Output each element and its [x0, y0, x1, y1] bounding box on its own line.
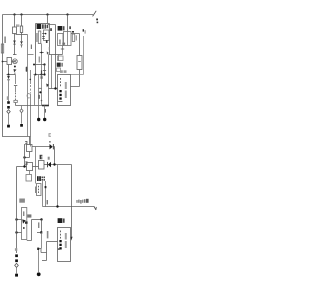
wire lead into box1 [29, 137, 31, 145]
resistor R1 body on left rail [1, 44, 3, 53]
IC U1 label above [60, 70, 67, 73]
label j near x49 [49, 47, 50, 50]
wire ground row dark segment [42, 105, 49, 107]
junction dot (41.5,100.5) [41, 100, 43, 102]
resistor R5 small body right of DL2 [72, 34, 74, 42]
junction blob (41.5,219.5) [40, 218, 42, 220]
junction dot bus x14.5 [13, 13, 15, 15]
label rps10 [76, 199, 88, 204]
diode D1 group label [37, 24, 49, 29]
wire x8.5 down [8, 80, 10, 101]
U1 inner dashed electrode [60, 78, 62, 87]
IC D2 box [58, 228, 71, 262]
label z [15, 248, 17, 251]
wire drop x38.5 to pad [38, 106, 40, 119]
small box above U1 [57, 68, 61, 72]
label IS lower left [19, 199, 25, 203]
small box above DL3 [58, 56, 64, 61]
label small y142 [49, 141, 51, 143]
wire bus end arrow tick [93, 11, 97, 17]
junction dot (44.5,74.5) [43, 73, 45, 75]
glyph crescent near x26 [26, 67, 28, 72]
capacitor tick y70.5 [43, 70, 46, 72]
terminal pad dot left [37, 118, 40, 121]
junction dot (54.5,164.5) [53, 163, 55, 165]
wire drop x45.5 [45, 181, 47, 207]
symbol at x15.5 y101 [14, 100, 17, 102]
label E [40, 155, 43, 159]
transistor Q1 box [22, 208, 27, 240]
Q1 inner emitter arrow [22, 219, 26, 223]
wire riser x48.5 [48, 55, 50, 106]
wire box1 to diode row y146.5 [32, 146, 50, 148]
wire DL2 to right resistor chain [71, 34, 80, 56]
lamp symbol at x14.9 [13, 59, 18, 64]
capacitor C1 box [7, 58, 12, 65]
wire left rail down and bottom-left return [3, 15, 31, 137]
wire riser x51.5 [51, 55, 53, 89]
label 2 right of x67.5 [69, 26, 71, 29]
wire x15.5 to gnd row [15, 103, 17, 106]
wire x83.5 drop to U1 top [71, 36, 84, 75]
blob on x45.5 [45, 186, 47, 188]
D2 inner bottom mark [58, 248, 60, 250]
wire dashed section x15.5 [15, 86, 17, 92]
wire ground row y105.5 [16, 105, 49, 107]
wire x14.5 mid [14, 34, 16, 56]
label inside DL2 bottom [62, 43, 65, 45]
resistor R4 side label [36, 33, 38, 42]
wire x71.5 into D2 right side [71, 207, 73, 238]
resistor R4 body inside D1 [38, 31, 41, 44]
polarity dot 1 bottom-left [15, 254, 18, 257]
mark near x46.5 y41 [46, 40, 48, 43]
resistor R2 label [16, 24, 19, 27]
wire riser x35.5 long [35, 147, 37, 184]
wire base row y88.5 [49, 88, 58, 90]
diamond symbol x21.5 [20, 109, 23, 113]
label col x38.5 [38, 222, 39, 228]
label streak x31 [31, 45, 32, 50]
junction dot (35.5,74.5) [35, 74, 37, 76]
junction dot (55.5,88.5) [54, 87, 56, 89]
wire to terminal [16, 267, 18, 273]
wire x8.5 lower [8, 114, 10, 125]
capacitor plate tick y85.5 [14, 85, 17, 87]
junction dot (8.5,74.5) [8, 74, 10, 76]
blob left Q1 row [25, 221, 28, 223]
capacitor tick y49 x62.5 [61, 48, 64, 50]
blob at (41,232.5) [40, 231, 42, 233]
capacitor tick y52.5 [40, 52, 44, 54]
resistor R2 body [13, 27, 17, 34]
wire riser x30.5 [30, 70, 32, 147]
wire drop x42.5 [42, 181, 44, 207]
output arrow tick [94, 207, 96, 210]
wire D1 right edge [49, 24, 51, 55]
wire link y34.5 [16, 34, 28, 36]
label C mid left [49, 133, 51, 137]
wire corner into x16.5 [16, 167, 18, 214]
arrow mark at left of y54.5 [47, 51, 49, 54]
wire x16.5 link [16, 213, 18, 253]
wire base ticks into Q1 [17, 220, 22, 233]
junction dot (24.5,157.5) [23, 156, 25, 158]
wire row y64.5 [34, 64, 45, 66]
wire x41.5 down [41, 220, 43, 233]
wire row y219.5 [32, 219, 42, 221]
junction dot (34,64.5) [33, 64, 35, 66]
polarity dot 1 x8.5 [7, 101, 10, 104]
resistor R3 body [20, 26, 22, 33]
junction dot (40.4,92.3) [39, 91, 41, 93]
wire row y166.5 left [17, 166, 27, 168]
indicator DL3 label [57, 63, 63, 67]
D2 rotated type text [65, 233, 67, 248]
wire riser x27.5 [27, 35, 29, 137]
U1 rotated type text [65, 82, 67, 98]
wire branch x21.5 from bus [21, 15, 23, 27]
diamond symbol x8.5 [7, 110, 10, 114]
wire C1 to base column [12, 61, 15, 63]
wire stub y54.5 from x27.5 [28, 54, 34, 56]
IC U1 box [58, 75, 71, 106]
D1 frame left edge [35, 24, 37, 75]
junction dot bus x47.5 [46, 13, 48, 15]
wire output row y206.5 [43, 206, 95, 208]
label Q1 area small marks [27, 214, 31, 217]
wire box2 bottom lead [29, 171, 31, 175]
wire riser x34.5 [34, 75, 36, 106]
glyph curl near x28 [27, 94, 30, 98]
box2 bottom small box [26, 175, 32, 182]
diode D5 marks on x14.5 [13, 41, 16, 45]
capacitor tick y88.5 x40 [39, 87, 42, 89]
dot inside C2 [45, 33, 47, 35]
wire tick y232.5 [37, 232, 42, 234]
label 3 near x50 [50, 28, 52, 31]
terminal dot bottom-center [37, 272, 41, 276]
wire y54.5 row [49, 54, 63, 56]
indicator DL1 label [58, 26, 65, 31]
wire bus drop x67.5 [67, 15, 69, 32]
wire x15.5 lower chain [15, 75, 17, 85]
wire x14.9 to node row [14, 73, 16, 75]
wire into D2 left y241.5 [47, 241, 58, 243]
label a mid [48, 157, 50, 160]
diode D8 left-pointing [47, 162, 51, 167]
diamond symbol bottom-left [15, 263, 19, 267]
wire x62.5 link [62, 46, 64, 55]
wire tick y157.5 [25, 157, 30, 159]
node bus right tiny label [96, 19, 98, 24]
wire branch x14.5 from bus [14, 15, 16, 28]
indicator DL2 right box [64, 32, 72, 46]
wire riser x31.5 bottom [27, 220, 32, 241]
wire from left rail to C1 box [3, 61, 8, 63]
U1 inner pellet dots [59, 90, 61, 100]
arrow marks left of y88.5 [46, 84, 49, 88]
wire tick y54.5 [13, 54, 17, 56]
wire drop x57.5 [57, 165, 59, 207]
wire x41.5 lower [41, 233, 43, 249]
wire riser x24.5 [24, 144, 26, 167]
D1 frame top edge [36, 23, 50, 25]
junction dot left rail y61.5 [2, 61, 4, 63]
transistor arrow marks x14.5 [14, 69, 17, 72]
junction dot (57.5,206.5) [56, 205, 58, 207]
wire box1 bottom lead [29, 152, 31, 158]
wire x21.5 to terminal [21, 113, 23, 124]
terminal pad dot right [43, 118, 46, 121]
indicator DL1 left box [58, 34, 64, 46]
wire stub x21.5 chain [21, 106, 23, 110]
diode D4 down at x8.5 [7, 76, 10, 80]
DL2 inner electrode [67, 32, 69, 46]
polarity dot 2 x8.5 [7, 106, 10, 109]
wire bus drop x47.5 [47, 15, 49, 24]
Q1 inner label 1 [23, 211, 24, 216]
junction dot bus x67.5 [66, 13, 68, 15]
wire drop x44.5 to pad [44, 106, 46, 119]
resistor R6 body [77, 56, 82, 70]
junction dot (16.5,219.5) [15, 218, 17, 220]
wire x44.5 to node row [44, 65, 46, 75]
junction dot (41.5,74.5) [40, 73, 42, 75]
diode D7 right-pointing [50, 144, 54, 149]
relay K2 box3 [39, 161, 45, 170]
wire riser x41.5 mid [41, 75, 43, 106]
terminal dot x21.5 [20, 124, 23, 127]
wire x21.5 mid [21, 33, 23, 48]
junction dot (41.5,52.5) [41, 52, 43, 54]
junction dot (14.9,66.5) [14, 66, 16, 68]
label mark x72 y31 [72, 31, 74, 33]
glyphs near x39.5 y96 [38, 95, 39, 99]
junction dot (44.5,64.5) [43, 63, 45, 65]
wire top supply bus [3, 14, 94, 16]
capacitor C3 box with dashed pole [37, 184, 42, 196]
label plus marks right [47, 200, 48, 204]
wire stub y260.5 [42, 260, 47, 262]
junction dot (24.5,166.5) [23, 165, 25, 167]
wire drop x38.5 to terminal [38, 250, 40, 272]
junction dot bus x21.5 [20, 13, 22, 15]
wire box3 to diode left row y164.5 [44, 164, 47, 166]
diode D6 marks on x21.5 [20, 41, 23, 45]
node label x8.5 chain [7, 96, 9, 100]
label 1 right chain [83, 29, 86, 33]
label col x47 Q2 [47, 231, 49, 238]
label inside D1 lower [39, 57, 41, 63]
U1 inner tick [58, 101, 62, 103]
wire y164.5 to corner x71.5 [51, 165, 72, 207]
capacitor C2 hatched box inside D1 [44, 30, 50, 41]
wire diode to corner x54.5 [53, 147, 56, 165]
wire node row y74.5 left [7, 74, 16, 76]
R5 side streak [76, 35, 77, 40]
bracket wire to x46.5 riser [38, 242, 47, 261]
wire node row y74.5 center [34, 74, 45, 76]
wire riser x38.5 [38, 75, 40, 106]
DL1 left box inner label [59, 40, 60, 45]
wire x41.5 inside D1 [41, 44, 43, 75]
blob at (38,249) [37, 248, 39, 250]
tiny marks above node row x41.5 [41, 70, 43, 78]
wire C1 bottom lead [8, 65, 10, 75]
terminal dot x8.5 [7, 125, 10, 128]
wire bus branch to DL1: corner [48, 25, 56, 89]
terminal dot bottom-left [15, 274, 18, 277]
label 2 lower [25, 161, 27, 165]
wire box2 to box3 [33, 166, 39, 168]
wire x58.5 below y54.5 [58, 55, 60, 62]
D2 inner dashed electrode [60, 231, 62, 239]
label 1 left of C3 [35, 187, 36, 194]
relay K1 box2 [27, 163, 33, 171]
IC D2 label [58, 218, 65, 223]
arrow into D2 [70, 237, 72, 241]
wire R6 bottom to U1 right [71, 70, 80, 87]
transformer T1 box1 [27, 145, 33, 152]
resistor R1 label [4, 37, 6, 44]
Q1 inner dot mark [23, 227, 25, 229]
label j x44.5 [45, 109, 46, 113]
label D3 block [37, 176, 45, 181]
junction dot (16.5,232.5) [15, 231, 17, 233]
D2 inner pellet dots [59, 240, 61, 250]
label 2 upper [25, 141, 27, 145]
polarity dot 2 bottom-left [15, 259, 18, 262]
